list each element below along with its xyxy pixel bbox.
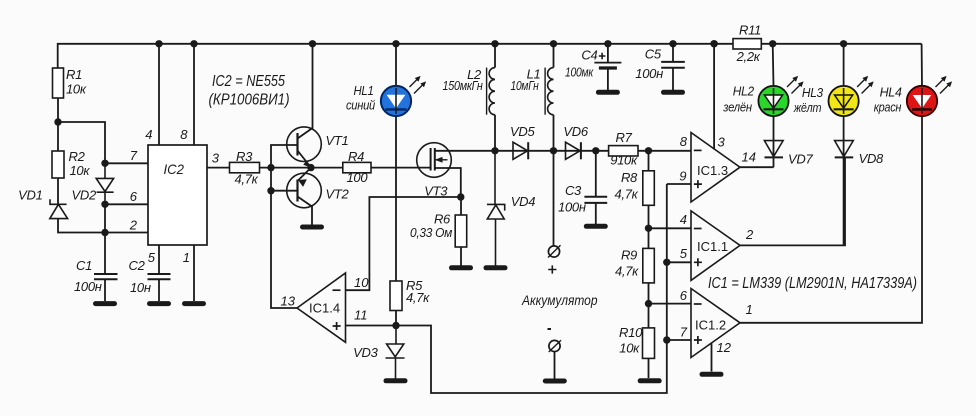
capacitor C1 (94, 274, 118, 279)
pin 3 wire (207, 167, 230, 169)
wire base column (271, 145, 298, 308)
diode VD1 zener (50, 199, 67, 204)
ground R10 (640, 378, 659, 383)
op-amp U IC2 timer box (148, 145, 207, 245)
junction R5/VD3/pin11 (392, 322, 399, 329)
wire pin 6 (649, 303, 692, 305)
ground VD4 (486, 265, 505, 270)
wire C1 lead (104, 233, 106, 275)
wire pin 4 (649, 227, 692, 229)
svg-text:VD2: VD2 (72, 188, 97, 203)
svg-text:VD7: VD7 (788, 152, 813, 167)
wire pin 5 (667, 261, 691, 263)
junction VT1 collector at rail (309, 40, 316, 47)
resistor R2 (57, 122, 59, 204)
pin 14 output wire (740, 166, 774, 168)
pin 12 ground stub (711, 343, 713, 372)
resistor R10 (648, 304, 650, 378)
ground VD3 (386, 378, 405, 383)
svg-text:VT3: VT3 (424, 184, 448, 199)
wire R5 to junction (395, 311, 397, 326)
svg-text:1: 1 (746, 302, 753, 317)
LED HL3 yellow (829, 86, 859, 116)
pin 8 (193, 44, 195, 145)
pin 1 output wire (740, 118, 922, 323)
ground pin12 (702, 372, 721, 377)
junction C3 (592, 147, 599, 154)
svg-text:4: 4 (680, 212, 687, 227)
svg-text:HL3: HL3 (802, 85, 824, 100)
svg-text:VT1: VT1 (326, 133, 349, 148)
svg-text:10к: 10к (66, 82, 87, 97)
svg-text:5: 5 (680, 246, 688, 261)
diode VD2 (97, 163, 114, 204)
svg-text:VD3: VD3 (353, 345, 378, 360)
diode VD7 (764, 141, 783, 157)
svg-text:4,7к: 4,7к (615, 264, 639, 279)
transistor VT1 (287, 127, 322, 162)
svg-text:4: 4 (145, 127, 152, 142)
svg-text:100н: 100н (74, 279, 102, 294)
svg-text:7: 7 (130, 148, 138, 163)
svg-text:R10: R10 (619, 325, 643, 340)
svg-text:IC1.4: IC1.4 (309, 301, 340, 316)
svg-text:10н: 10н (130, 280, 151, 295)
op-amp IC1.2 (691, 289, 740, 358)
svg-text:0,33 Ом: 0,33 Ом (410, 225, 452, 240)
svg-text:R8: R8 (621, 170, 638, 185)
junction pin7 node (101, 160, 108, 167)
resistor R3 (230, 162, 260, 172)
ground C3 (586, 224, 605, 229)
op-amp IC1.1 (691, 211, 740, 281)
svg-text:10к: 10к (70, 163, 91, 178)
svg-text:6: 6 (680, 288, 688, 303)
resistor R1 (53, 68, 64, 98)
svg-text:7: 7 (680, 324, 688, 339)
junction R11 left (710, 40, 717, 47)
svg-text:3: 3 (718, 135, 726, 150)
ground VT2 (303, 225, 322, 230)
svg-text:910к: 910к (610, 153, 638, 168)
wire HL3 column (843, 44, 845, 246)
svg-text:жёлт: жёлт (793, 100, 822, 115)
svg-text:R2: R2 (69, 149, 86, 164)
svg-text:VT2: VT2 (326, 187, 350, 202)
svg-text:4,7к: 4,7к (235, 172, 259, 187)
svg-text:IC1.2: IC1.2 (695, 318, 726, 333)
svg-text:10мГн: 10мГн (511, 78, 539, 93)
LED HL2 green (758, 86, 788, 116)
diode VD3 (386, 326, 405, 379)
svg-text:HL1: HL1 (354, 83, 374, 98)
pin 3 power stub (713, 44, 715, 150)
capacitor C5 (672, 44, 674, 62)
resistor R5 (390, 281, 402, 311)
svg-text:1: 1 (183, 250, 190, 265)
svg-text:IC2: IC2 (164, 161, 185, 177)
junction VT2 base (267, 187, 274, 194)
junction R11 right (769, 40, 776, 47)
diode VD4 zener (487, 151, 505, 266)
wire pin 7 (667, 339, 691, 341)
wire pin 10 to source node (346, 197, 461, 290)
svg-text:R4: R4 (348, 149, 364, 164)
junction VT3 source / R6 (457, 193, 464, 200)
svg-text:IC1.1: IC1.1 (697, 239, 728, 254)
wire pin 8 (649, 150, 692, 152)
svg-text:8: 8 (680, 134, 688, 149)
svg-text:100н: 100н (635, 66, 663, 81)
junction pin7 (663, 336, 670, 343)
resistor R4 (343, 162, 371, 172)
junction base column R3 (267, 164, 274, 171)
svg-text:HL4: HL4 (880, 85, 902, 100)
LED HL1 blue (381, 86, 411, 116)
resistor R8 (648, 151, 650, 229)
transistor VT2 (287, 173, 322, 208)
wire R1 to node (57, 98, 59, 122)
svg-text:C3: C3 (565, 183, 582, 198)
wire node to VD2 column (58, 122, 105, 163)
svg-text:IC1.3: IC1.3 (697, 163, 728, 178)
junction emitters node (307, 164, 314, 171)
svg-text:C5: C5 (645, 47, 662, 62)
svg-text:100: 100 (347, 170, 369, 185)
wire pin 9 (667, 183, 691, 185)
svg-text:HL2: HL2 (733, 84, 755, 99)
svg-text:VD5: VD5 (510, 124, 535, 139)
ground battery (545, 379, 564, 384)
svg-text:4,7к: 4,7к (406, 290, 430, 305)
inductor L2 (494, 44, 496, 151)
svg-text:150мкГн: 150мкГн (443, 78, 483, 93)
junction VD4/L2 (491, 147, 498, 154)
junction R9/R10 pin6 (645, 300, 652, 307)
svg-text:R11: R11 (739, 23, 761, 38)
svg-text:5: 5 (148, 250, 156, 265)
svg-text:красн: красн (874, 100, 902, 115)
wire VT2 base (271, 190, 298, 192)
pin 2 output wire (740, 158, 845, 246)
junction HL3 at rail (840, 40, 847, 47)
diode VD5 (513, 142, 528, 159)
ground R6 (452, 265, 471, 270)
pin 1 lead (193, 245, 195, 301)
wire top power rail (58, 44, 922, 68)
resistor R6 (460, 197, 462, 266)
svg-text:R3: R3 (236, 149, 253, 164)
pin 4 (158, 44, 160, 145)
svg-text:VD6: VD6 (563, 124, 588, 139)
wire VD1 to pin2 net (58, 219, 148, 233)
wire R4 to VT3 gate (371, 167, 431, 169)
node R1/R2 junction (54, 118, 61, 125)
ground C4 (598, 90, 617, 95)
svg-text:R7: R7 (616, 130, 633, 145)
junction pin2 node (101, 229, 108, 236)
wire VD2 node down (104, 204, 106, 232)
svg-text:100мк: 100мк (565, 65, 594, 80)
pin 5 lead (158, 245, 160, 274)
diode VD6 (566, 142, 581, 159)
svg-text:(КР1006ВИ1): (КР1006ВИ1) (209, 92, 290, 109)
LED HL4 red (921, 44, 923, 118)
battery minus terminal (548, 328, 552, 330)
wire pin 11 net (346, 184, 667, 393)
op-amp IC1.3 (691, 133, 740, 203)
svg-text:10: 10 (354, 275, 369, 290)
svg-text:C4: C4 (581, 48, 597, 63)
svg-text:C1: C1 (76, 258, 92, 273)
svg-text:10к: 10к (619, 341, 640, 356)
wire R3 to emitters (260, 167, 343, 169)
svg-text:6: 6 (130, 189, 138, 204)
svg-text:8: 8 (180, 127, 188, 142)
svg-text:12: 12 (717, 340, 732, 355)
wire pin 7 (105, 162, 148, 164)
svg-text:11: 11 (354, 308, 368, 323)
ground pin1 (185, 301, 204, 306)
svg-text:14: 14 (742, 150, 756, 165)
ground C2 (150, 301, 169, 306)
transistor VT3 mosfet (417, 143, 452, 178)
wire pin 6 (105, 203, 148, 205)
capacitor C4 (607, 44, 609, 63)
wire drain output node (435, 150, 649, 152)
junction R7 right (645, 147, 652, 154)
svg-text:синий: синий (346, 98, 375, 113)
junction R8/R9 pin4 (645, 225, 652, 232)
resistor R7 (609, 146, 638, 156)
svg-text:100н: 100н (558, 200, 586, 215)
ground C5 (664, 90, 683, 95)
svg-text:4,7к: 4,7к (614, 187, 638, 202)
wire HL2 column (772, 44, 775, 167)
svg-text:9: 9 (679, 169, 686, 184)
wire HL1 column (395, 44, 397, 281)
svg-text:2: 2 (129, 218, 138, 233)
svg-text:R1: R1 (66, 67, 82, 82)
svg-text:зелён: зелён (722, 100, 751, 115)
svg-text:2: 2 (745, 227, 754, 242)
junction pin6 node (101, 201, 108, 208)
resistor R9 (648, 228, 650, 303)
svg-text:IC1 = LM339 (LM2901N, HA17339A: IC1 = LM339 (LM2901N, HA17339A) (708, 275, 917, 292)
svg-text:VD1: VD1 (18, 188, 42, 203)
svg-text:R9: R9 (621, 248, 637, 263)
svg-text:C2: C2 (129, 258, 146, 273)
junction L1 bottom (550, 147, 557, 154)
battery plus terminal (553, 151, 555, 246)
svg-text:VD4: VD4 (511, 194, 535, 209)
diode VD8 (835, 141, 854, 157)
svg-text:2,2к: 2,2к (736, 49, 761, 64)
inductor L1 (553, 44, 555, 151)
svg-text:13: 13 (281, 294, 296, 309)
junction HL1 at rail (392, 40, 399, 47)
capacitor C3 (595, 151, 597, 197)
junction pin5 (663, 259, 670, 266)
op-amp IC1.4 (297, 273, 346, 342)
svg-text:IC2 = NE555: IC2 = NE555 (212, 73, 285, 90)
resistor R11 (733, 39, 761, 49)
capacitor C2 (148, 274, 171, 279)
svg-text:Аккумулятор: Аккумулятор (521, 293, 598, 308)
ground C1 (96, 301, 115, 306)
svg-text:3: 3 (212, 151, 220, 166)
svg-text:VD8: VD8 (859, 151, 884, 166)
